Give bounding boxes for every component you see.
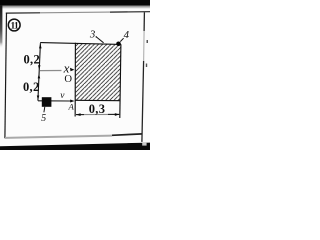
leader to label 5: [43, 107, 46, 113]
bottom dim right stub: [108, 113, 119, 115]
x axis gray line: [40, 70, 62, 72]
left dim arrow down (bottom of lower 0,2): [37, 96, 40, 101]
label 3 period: [96, 36, 97, 37]
svg-text:O: O: [64, 74, 72, 85]
hatched plate fill: [75, 43, 121, 101]
block 5: [42, 97, 52, 107]
figure number circle: [8, 19, 20, 31]
leader from dot to label 4: [120, 38, 123, 41]
svg-text:0,3: 0,3: [89, 102, 106, 116]
plate right edge (extended down as extension line): [120, 44, 121, 118]
base line: [38, 100, 71, 102]
frame bottom dark line: [112, 134, 142, 135]
left dimension line vertical: [38, 43, 41, 100]
bottom dimension line: [76, 113, 119, 115]
bottom dim arrow right: [115, 113, 120, 116]
bottom dim arrow left: [76, 113, 81, 116]
left dim arrow down (bottom of 0,2): [38, 65, 41, 70]
right margin speck upper: [147, 40, 149, 43]
svg-text:A: A: [68, 102, 75, 112]
leader from 3 to plate top edge: [96, 37, 104, 43]
right margin speck lower: [146, 64, 147, 68]
frame left line: [5, 13, 7, 139]
plate top edge (extended left to dimension line): [40, 43, 121, 45]
frame right line faint middle: [143, 31, 146, 61]
frame bottom faint gray line: [5, 136, 112, 138]
frame right line upper: [143, 12, 145, 31]
plate bottom edge: [75, 99, 120, 101]
bottom dim left stub: [76, 114, 84, 116]
svg-text:0,2: 0,2: [23, 52, 40, 66]
left dim arrow up (top of 0,2): [39, 44, 42, 49]
svg-text:5: 5: [41, 113, 46, 124]
frame top line left: [6, 12, 40, 14]
top bar fade band: [0, 6, 150, 9]
left dim arrow up (top of lower 0,2): [38, 74, 41, 79]
plate left edge (extended down as extension line): [74, 43, 76, 117]
x axis arrowhead: [70, 68, 74, 72]
svg-text:11: 11: [10, 21, 19, 31]
velocity arrowhead: [70, 100, 74, 103]
point 4 dot: [116, 42, 121, 47]
frame right line lower: [142, 61, 144, 142]
bottom bar light notch: [142, 143, 146, 146]
svg-text:3: 3: [89, 29, 96, 41]
left page-edge dark strip: [0, 6, 2, 49]
top page-edge black bar: [0, 0, 150, 6]
svg-text:4: 4: [124, 29, 130, 41]
frame top line right: [110, 11, 150, 13]
paper background: [0, 0, 150, 150]
svg-text:0,2: 0,2: [23, 80, 40, 94]
frame top line middle faint: [40, 11, 110, 14]
bottom page-edge black bar: [0, 143, 150, 150]
